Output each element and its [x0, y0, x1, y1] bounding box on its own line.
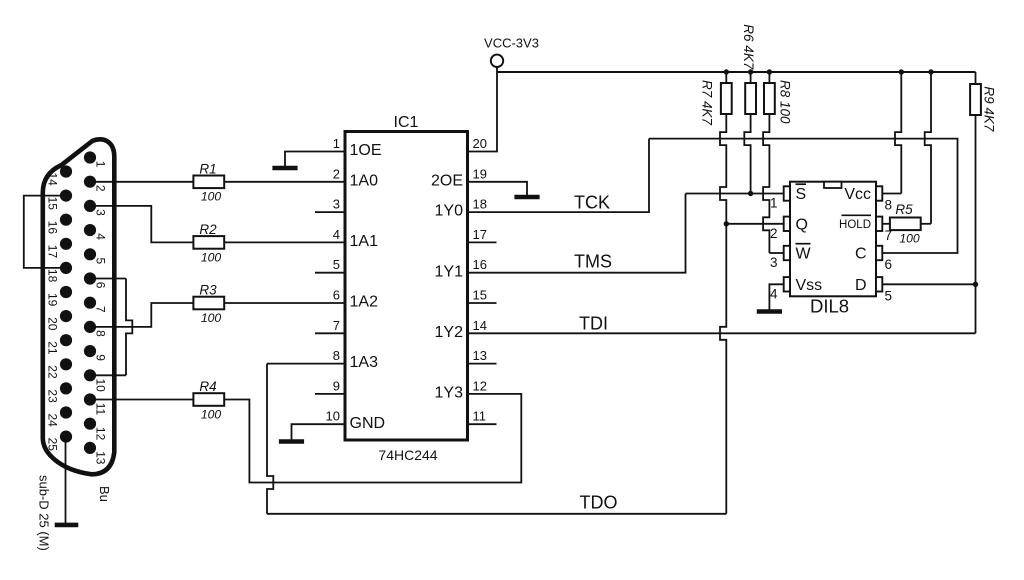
svg-text:1A2: 1A2 [350, 294, 379, 311]
svg-text:18: 18 [46, 269, 60, 283]
svg-text:1: 1 [94, 161, 108, 168]
svg-text:HOLD: HOLD [839, 219, 871, 231]
wire R9 to D net [975, 115, 977, 284]
svg-text:3: 3 [333, 197, 340, 212]
wire TMS from 1Y1 [468, 194, 686, 273]
wire pin8 to R3 [90, 303, 193, 327]
svg-text:R4: R4 [199, 379, 216, 394]
wire pin2 to R1 [90, 181, 193, 183]
connector pin 24 [60, 406, 72, 418]
wire IC1 pin1 1OE to ground [285, 152, 345, 167]
svg-text:14: 14 [46, 173, 60, 187]
svg-text:74HC244: 74HC244 [378, 447, 437, 463]
wire IC1 pin19 2OE to ground [468, 182, 528, 195]
wire pins 15-18 strap [24, 196, 66, 268]
wire R6 to S net [750, 72, 752, 83]
connector pin 8 [84, 321, 96, 333]
connector pin 11 [84, 393, 96, 405]
svg-text:100: 100 [201, 311, 222, 325]
connector pin 9 [84, 345, 96, 357]
svg-text:1OE: 1OE [350, 142, 382, 159]
svg-text:R1: R1 [199, 161, 216, 176]
connector pin 18 [60, 262, 72, 274]
svg-text:100: 100 [201, 250, 222, 264]
DIL8 pin 3 stub [784, 246, 790, 260]
connector pin 23 [60, 382, 72, 394]
connector pin 22 [60, 358, 72, 370]
svg-text:R6 4K7: R6 4K7 [741, 24, 756, 70]
connector pin 19 [60, 286, 72, 298]
wire TDO [267, 513, 726, 515]
svg-text:1Y0: 1Y0 [435, 203, 464, 220]
wire pin11 to R4 [90, 399, 193, 401]
connector shield wire [65, 437, 67, 523]
connector pin 4 [84, 224, 96, 236]
svg-text:D: D [855, 277, 867, 294]
svg-text:1Y3: 1Y3 [435, 385, 464, 402]
svg-text:18: 18 [473, 197, 487, 212]
svg-text:100: 100 [201, 407, 222, 421]
svg-text:3: 3 [770, 255, 778, 270]
IC U1 74HC244 body [345, 132, 468, 441]
junction dot R6 [748, 69, 753, 74]
junction dot R5 riser [928, 69, 933, 74]
DIL8 pin 8 stub [876, 186, 882, 200]
svg-text:1A3: 1A3 [350, 354, 379, 371]
svg-text:3: 3 [94, 209, 108, 216]
svg-text:23: 23 [46, 389, 60, 403]
connector pin 17 [60, 238, 72, 250]
DIL8 pin 5 stub [876, 277, 882, 291]
svg-text:9: 9 [94, 354, 108, 361]
svg-text:14: 14 [473, 318, 487, 333]
svg-text:16: 16 [46, 221, 60, 235]
svg-text:Bu: Bu [97, 486, 112, 502]
svg-text:2OE: 2OE [431, 172, 463, 189]
svg-text:8: 8 [885, 198, 893, 213]
wire TDI up to D net [975, 284, 977, 333]
svg-text:6: 6 [333, 288, 340, 303]
resistor R3 [193, 297, 224, 310]
wire R4 to 1Y3 net [224, 394, 521, 483]
connector pin 7 [84, 297, 96, 309]
connector pin 2 [84, 176, 96, 188]
svg-text:2: 2 [333, 166, 340, 181]
wire D pin5 to TDI net [882, 283, 975, 285]
svg-text:4: 4 [94, 233, 108, 240]
svg-text:1A1: 1A1 [350, 233, 379, 250]
svg-text:2: 2 [94, 185, 108, 192]
connector pin 10 [84, 369, 96, 381]
svg-text:4: 4 [770, 286, 778, 301]
resistor R8 100 [764, 83, 775, 114]
junction dot R8 [767, 69, 772, 74]
junction dot R7 [724, 69, 729, 74]
wire pin3 to R2 [90, 206, 193, 243]
connector pin 6 [84, 272, 96, 284]
svg-text:1Y1: 1Y1 [435, 263, 464, 280]
wire TCK from 1Y0 [468, 139, 650, 213]
DIL8 pin 6 stub [876, 246, 882, 260]
svg-text:4: 4 [333, 227, 340, 242]
connector pin 5 [84, 248, 96, 260]
svg-text:Vss: Vss [796, 277, 823, 294]
wire IC1 pin8 1A3 to TDO [267, 363, 345, 365]
svg-text:17: 17 [473, 227, 487, 242]
svg-text:S: S [796, 186, 807, 203]
svg-text:R2: R2 [199, 222, 217, 237]
IC U2 DIL8 body [790, 182, 876, 297]
wire TCK rail to C [649, 139, 958, 253]
junction dot Q [724, 221, 729, 226]
wire R7 to Q/TDO net [725, 72, 727, 83]
svg-text:TDI: TDI [579, 314, 608, 334]
svg-text:9: 9 [333, 378, 340, 393]
svg-text:DIL8: DIL8 [810, 296, 849, 317]
junction dot Vcc riser [899, 69, 904, 74]
wire R8 to W [768, 72, 770, 83]
resistor R1 [193, 176, 224, 189]
resistor R9 4K7 [970, 84, 981, 115]
connector pin 3 [84, 200, 96, 212]
svg-text:12: 12 [473, 378, 487, 393]
svg-text:R9 4K7: R9 4K7 [982, 86, 997, 132]
wire R5 to rail [921, 223, 931, 225]
ground at 2OE [514, 195, 539, 200]
connector pin 15 [60, 190, 72, 202]
svg-text:15: 15 [46, 197, 60, 211]
svg-text:1: 1 [333, 136, 340, 151]
svg-text:1A0: 1A0 [350, 172, 379, 189]
resistor R6 4K7 [745, 83, 756, 114]
svg-text:1Y2: 1Y2 [435, 324, 464, 341]
connector pin 21 [60, 334, 72, 346]
svg-text:R8 100: R8 100 [778, 80, 793, 124]
svg-text:13: 13 [473, 348, 487, 363]
svg-text:5: 5 [885, 288, 893, 303]
svg-text:TDO: TDO [580, 493, 618, 513]
junction dot S [748, 191, 753, 196]
svg-text:VCC-3V3: VCC-3V3 [484, 36, 539, 51]
DIL8 pin 1 stub [784, 186, 790, 200]
connector pin 12 [84, 418, 96, 430]
svg-text:6: 6 [94, 282, 108, 289]
DIL8 pin 7 stub [876, 217, 882, 231]
DIL8 pin 4 stub [784, 277, 790, 291]
svg-text:24: 24 [46, 414, 60, 428]
wire Vcc pin8 to rail [882, 193, 901, 195]
ground at 1OE [272, 166, 297, 171]
svg-text:7: 7 [94, 306, 108, 313]
svg-text:GND: GND [350, 415, 386, 432]
svg-text:Q: Q [796, 216, 808, 233]
junction dot D net [973, 282, 978, 287]
svg-text:20: 20 [473, 136, 487, 151]
svg-text:25: 25 [46, 438, 60, 452]
wire rail to R9 [975, 72, 977, 84]
svg-text:W: W [796, 246, 812, 263]
wire R2 to IC1 pin4 1A1 [224, 241, 345, 243]
svg-text:R7 4K7: R7 4K7 [700, 80, 715, 126]
wire pins 6-10 loop [90, 278, 126, 280]
svg-text:IC1: IC1 [394, 114, 419, 131]
svg-text:11: 11 [473, 409, 487, 424]
svg-text:21: 21 [46, 341, 60, 355]
resistor R7 4K7 [721, 83, 732, 114]
connector shield ground bar [55, 523, 79, 528]
svg-text:10: 10 [326, 409, 340, 424]
svg-text:17: 17 [46, 245, 60, 259]
svg-text:10: 10 [94, 379, 108, 393]
svg-text:16: 16 [473, 257, 487, 272]
svg-text:TMS: TMS [574, 252, 612, 272]
connector X1 sub-D 25 shell [43, 139, 115, 474]
DIL8 notch [824, 182, 842, 188]
svg-text:8: 8 [94, 330, 108, 337]
svg-text:TCK: TCK [574, 193, 610, 213]
wire Q pin2 to TDO net [726, 223, 783, 225]
svg-text:13: 13 [94, 451, 108, 465]
resistor R5 [890, 218, 921, 231]
svg-text:100: 100 [899, 231, 920, 245]
wire R3 to IC1 pin6 1A2 [224, 302, 345, 304]
connector pin 20 [60, 310, 72, 322]
svg-text:2: 2 [770, 226, 778, 241]
VCC-3V3 terminal circle [491, 55, 503, 67]
svg-text:Vcc: Vcc [844, 186, 871, 203]
svg-text:C: C [855, 246, 867, 263]
ground at Vss [757, 309, 782, 314]
svg-text:20: 20 [46, 317, 60, 331]
wire TDI from 1Y2 [468, 332, 976, 334]
svg-text:100: 100 [201, 190, 222, 204]
svg-text:5: 5 [333, 257, 340, 272]
svg-text:15: 15 [473, 288, 487, 303]
svg-text:1: 1 [770, 196, 778, 211]
resistor R4 [193, 393, 224, 406]
svg-text:22: 22 [46, 365, 60, 379]
svg-text:12: 12 [94, 427, 108, 441]
svg-text:R3: R3 [199, 283, 217, 298]
svg-text:8: 8 [333, 348, 340, 363]
svg-text:5: 5 [94, 258, 108, 265]
connector pin 16 [60, 214, 72, 226]
svg-text:R5: R5 [895, 202, 913, 217]
wire Vss pin4 to ground [769, 284, 783, 309]
svg-text:sub-D 25 (M): sub-D 25 (M) [37, 475, 52, 551]
wire TMS to S [686, 193, 784, 195]
wire HOLD pin7 to R5 [882, 223, 890, 225]
wire VCC stem to IC1 pin20 [468, 67, 498, 152]
connector pin 14 [60, 165, 72, 177]
svg-text:19: 19 [46, 293, 60, 307]
resistor R2 [193, 236, 224, 249]
DIL8 pin 2 stub [784, 217, 790, 231]
connector pin 25 [60, 431, 72, 443]
connector pin 1 [84, 151, 96, 163]
connector pin 13 [84, 442, 96, 454]
ground at GND pin [279, 439, 304, 444]
VCC rail [497, 71, 976, 73]
svg-text:19: 19 [473, 166, 487, 181]
svg-text:7: 7 [333, 318, 340, 333]
svg-text:11: 11 [94, 403, 108, 416]
wire IC1 pin10 GND to ground [292, 424, 346, 439]
wire R1 to IC1 pin2 1A0 [224, 181, 345, 183]
svg-text:6: 6 [885, 257, 893, 272]
